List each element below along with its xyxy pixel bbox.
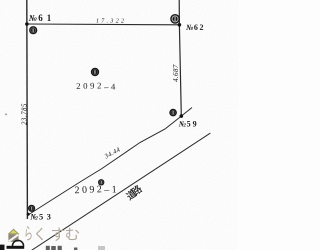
watermark logo magnifier circle [12,240,23,246]
watermark logo base bar [7,246,25,249]
wire upper diagonal boundary [28,108,192,216]
watermark text Rakusumu [26,226,80,241]
wire right boundary line [179,0,181,116]
watermark logo house body [8,234,18,242]
svg-text:№53: №53 [29,212,54,222]
marker circled glyph top right [170,14,180,24]
svg-text:17.322: 17.322 [96,19,126,25]
svg-text:23.785: 23.785 [21,103,28,125]
wire lower diagonal boundary [29,133,210,250]
marker circled glyph near point 59 [169,109,177,117]
svg-text:2092–1: 2092–1 [74,184,119,197]
speck left margin [5,113,7,115]
marker circled glyph near point 53 [28,205,35,212]
svg-text:№61: №61 [28,13,55,23]
bottom cut-off fragment left edge [0,245,5,250]
wire left boundary line [26,0,29,219]
bottom faint mark [98,246,105,250]
svg-text:4.687: 4.687 [172,64,180,82]
label road kanji 道路 [125,184,143,201]
node corner point 61 [25,22,29,26]
watermark logo house roof [9,229,19,234]
node junction point 59 [180,114,184,118]
marker circled glyph parcel 2092-4 [91,68,99,76]
marker circled glyph near point 61 [29,26,37,34]
node corner point 62 [178,23,182,27]
svg-text:№59: №59 [179,120,199,129]
svg-text:№62: №62 [186,23,205,32]
bottom cut-off text fragments [46,246,78,250]
node junction point 53 [27,213,30,216]
wire top boundary line [27,23,180,26]
marker circled glyph parcel 2092-1 [98,179,104,185]
